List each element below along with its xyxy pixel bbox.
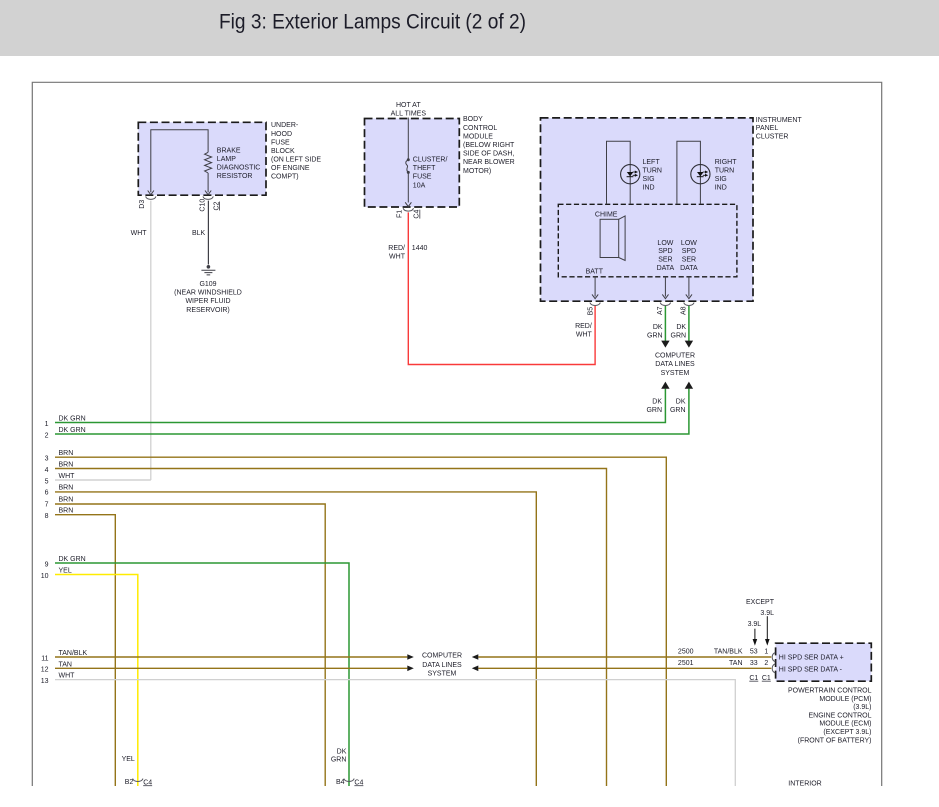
wire label DK GRN bottom	[331, 748, 347, 763]
svg-text:3.9L: 3.9L	[760, 610, 774, 617]
svg-text:MODULE: MODULE	[463, 133, 493, 140]
svg-text:G109: G109	[199, 281, 216, 288]
connector hook C10/C2	[203, 196, 213, 199]
connector label C2	[213, 201, 220, 210]
svg-text:6: 6	[45, 490, 49, 497]
svg-text:SYSTEM: SYSTEM	[661, 370, 690, 377]
chime label	[595, 212, 618, 219]
svg-text:BRN: BRN	[59, 508, 74, 515]
svg-text:YEL: YEL	[59, 568, 72, 575]
svg-text:GRN: GRN	[331, 757, 347, 764]
BCM box	[365, 119, 460, 208]
PCM box	[776, 643, 872, 681]
svg-text:RED/: RED/	[388, 245, 405, 252]
node computer data lines system lower	[422, 653, 462, 678]
svg-text:SPD: SPD	[682, 248, 696, 255]
svg-text:COMPUTER: COMPUTER	[655, 353, 695, 360]
pin label A7	[657, 306, 664, 315]
wire labels DK GRN pair upper	[647, 324, 686, 340]
arrow into pin C10	[205, 191, 211, 195]
PCM label	[788, 688, 872, 745]
pin label A8	[681, 306, 688, 315]
svg-text:CLUSTER/: CLUSTER/	[413, 157, 448, 164]
stub A8	[686, 277, 692, 299]
svg-text:BRAKE: BRAKE	[217, 147, 241, 154]
svg-text:3.9L: 3.9L	[748, 621, 762, 628]
svg-text:DATA LINES: DATA LINES	[422, 662, 462, 669]
connector label C4	[414, 210, 421, 219]
svg-text:C4: C4	[414, 210, 421, 219]
svg-text:SYSTEM: SYSTEM	[428, 670, 457, 677]
left wire name labels	[59, 416, 88, 680]
circuit 2501 labels	[678, 660, 768, 667]
svg-text:HOOD: HOOD	[271, 131, 292, 138]
svg-text:BRN: BRN	[59, 450, 74, 457]
connector hook A7	[660, 303, 670, 306]
svg-text:2501: 2501	[678, 660, 694, 667]
stub BATT to B5	[592, 277, 598, 299]
connector hook D3	[146, 196, 156, 199]
wire label WHT	[131, 230, 148, 237]
instrument panel cluster label	[756, 117, 803, 141]
svg-text:GRN: GRN	[646, 407, 662, 414]
connector hook PCM pin 2	[772, 664, 775, 673]
resistor R brake lamp diagnostic	[205, 152, 212, 173]
fuse label	[413, 157, 448, 190]
svg-text:SPD: SPD	[658, 248, 672, 255]
arrow into pin F1	[405, 202, 411, 206]
svg-text:TURN: TURN	[715, 167, 734, 174]
left turn sig ind lamp U1	[621, 165, 640, 184]
wire 7 BRN	[55, 504, 325, 786]
resistor label	[217, 147, 261, 180]
wire label BLK	[192, 230, 206, 237]
svg-text:3: 3	[45, 455, 49, 462]
svg-text:DATA LINES: DATA LINES	[655, 361, 695, 368]
svg-text:CHIME: CHIME	[595, 212, 618, 219]
wire 6 BRN	[55, 492, 536, 786]
svg-text:DK: DK	[653, 324, 663, 331]
BCM label	[463, 116, 515, 175]
connector label C4 yellow	[143, 779, 152, 786]
wire label RED/WHT at B5	[575, 323, 592, 339]
svg-text:RED/: RED/	[575, 323, 592, 330]
svg-text:(FRONT OF BATTERY): (FRONT OF BATTERY)	[798, 737, 872, 744]
svg-text:LAMP: LAMP	[217, 156, 236, 163]
svg-text:BLOCK: BLOCK	[271, 148, 295, 155]
title bar	[0, 0, 939, 56]
svg-text:COMPT): COMPT)	[271, 174, 299, 181]
right turn label	[715, 159, 738, 192]
node computer data lines system upper	[655, 353, 695, 377]
svg-text:HOT AT: HOT AT	[396, 102, 421, 109]
BATT label	[586, 268, 604, 275]
wire BLK to ground	[207, 201, 209, 265]
wire label YEL bottom	[122, 756, 135, 763]
wire 9 DK GRN	[55, 563, 349, 786]
svg-text:C4: C4	[354, 779, 363, 786]
svg-text:BRN: BRN	[59, 484, 74, 491]
svg-text:INSTRUMENT: INSTRUMENT	[756, 117, 803, 124]
PCM pin texts	[779, 654, 844, 673]
svg-text:10A: 10A	[413, 182, 426, 189]
left turn indicator loop wire	[607, 141, 631, 204]
3.9L label	[748, 621, 762, 628]
svg-text:POWERTRAIN CONTROL: POWERTRAIN CONTROL	[788, 688, 872, 695]
svg-text:GRN: GRN	[670, 407, 686, 414]
svg-text:DK: DK	[676, 324, 686, 331]
svg-text:MODULE (ECM): MODULE (ECM)	[819, 721, 871, 728]
svg-text:11: 11	[41, 655, 48, 662]
wire internal fuse block loop	[151, 130, 208, 193]
svg-text:BODY: BODY	[463, 116, 483, 123]
HOT AT ALL TIMES label	[391, 102, 427, 118]
svg-text:LOW: LOW	[681, 240, 697, 247]
svg-text:IND: IND	[643, 185, 655, 192]
arrow 3.9L to pin 53	[753, 629, 758, 646]
svg-text:4: 4	[45, 467, 49, 474]
svg-text:IND: IND	[715, 185, 727, 192]
svg-text:HI SPD SER DATA -: HI SPD SER DATA -	[779, 666, 843, 673]
svg-text:8: 8	[45, 513, 49, 520]
svg-text:C10: C10	[200, 199, 207, 212]
connector hook A8	[684, 303, 694, 306]
svg-text:DATA: DATA	[657, 265, 675, 272]
svg-text:SIG: SIG	[643, 176, 655, 183]
svg-text:GRN: GRN	[671, 333, 687, 340]
svg-text:B5: B5	[587, 307, 594, 316]
svg-text:RESISTOR: RESISTOR	[217, 173, 253, 180]
instrument panel cluster box	[541, 118, 754, 301]
stub A7	[662, 277, 668, 299]
connector hook B5	[590, 303, 600, 306]
svg-text:CONTROL: CONTROL	[463, 125, 497, 132]
left margin wire numbers	[41, 421, 49, 685]
pin label C10	[200, 199, 207, 212]
feed wire into BCM	[407, 118, 409, 203]
wire 12 TAN left segment	[55, 666, 414, 672]
svg-text:C2: C2	[213, 201, 220, 210]
svg-text:B4: B4	[336, 779, 345, 786]
svg-text:SER: SER	[682, 257, 696, 264]
wire DK GRN from A8	[685, 306, 693, 348]
svg-text:TAN/BLK: TAN/BLK	[714, 649, 743, 656]
svg-text:OF ENGINE: OF ENGINE	[271, 165, 310, 172]
wire 10 YEL	[55, 575, 138, 787]
svg-text:7: 7	[45, 502, 49, 509]
wire label RED/WHT at BCM	[388, 245, 405, 260]
svg-text:C4: C4	[143, 779, 152, 786]
svg-text:DK: DK	[337, 748, 347, 755]
arrow except 3.9L to pin 1	[765, 616, 770, 645]
svg-text:LOW: LOW	[657, 240, 673, 247]
svg-text:WIPER FLUID: WIPER FLUID	[185, 298, 230, 305]
svg-text:(EXCEPT 3.9L): (EXCEPT 3.9L)	[823, 729, 871, 736]
svg-text:WHT: WHT	[59, 473, 76, 480]
svg-text:BATT: BATT	[586, 268, 604, 275]
svg-text:GRN: GRN	[647, 333, 663, 340]
svg-text:YEL: YEL	[122, 756, 135, 763]
underhood fuse block box	[138, 122, 266, 195]
svg-text:EXCEPT: EXCEPT	[746, 599, 775, 606]
svg-text:F1: F1	[397, 210, 404, 218]
svg-text:FUSE: FUSE	[413, 174, 432, 181]
svg-text:DATA: DATA	[680, 265, 698, 272]
svg-text:SIG: SIG	[715, 176, 727, 183]
connector hook B4/C4 green	[344, 779, 354, 782]
svg-text:DK: DK	[652, 398, 662, 405]
svg-text:13: 13	[41, 678, 49, 685]
arrow into pin D3	[148, 191, 154, 195]
svg-text:Fig 3: Exterior Lamps Circuit: Fig 3: Exterior Lamps Circuit (2 of 2)	[219, 11, 526, 34]
svg-text:1440: 1440	[412, 245, 428, 252]
connector hook B2/C4 yellow	[133, 779, 143, 782]
svg-text:WHT: WHT	[389, 253, 406, 260]
svg-text:DK GRN: DK GRN	[59, 416, 86, 423]
svg-text:TURN: TURN	[643, 167, 662, 174]
wire RED/WHT 1440 BCM to IPC B5	[408, 212, 595, 364]
svg-text:NEAR BLOWER: NEAR BLOWER	[463, 159, 515, 166]
wire 12 TAN right segment	[472, 666, 772, 672]
svg-text:TAN/BLK: TAN/BLK	[59, 650, 88, 657]
wire 3 BRN	[55, 457, 666, 786]
svg-text:WHT: WHT	[59, 673, 76, 680]
underhood fuse block label	[271, 122, 321, 180]
svg-text:DK GRN: DK GRN	[59, 427, 86, 434]
svg-text:DK GRN: DK GRN	[59, 556, 86, 563]
wire DK GRN from A7	[661, 306, 669, 348]
svg-text:2: 2	[764, 660, 768, 667]
svg-text:CLUSTER: CLUSTER	[756, 134, 789, 141]
wire 4 BRN	[55, 469, 607, 787]
svg-text:WHT: WHT	[131, 230, 148, 237]
wire 13 WHT	[55, 680, 735, 786]
wire labels DK GRN pair lower	[646, 398, 685, 414]
wire 2 DK GRN	[55, 382, 693, 434]
svg-text:BLK: BLK	[192, 230, 206, 237]
svg-text:PANEL: PANEL	[756, 125, 779, 132]
svg-text:LEFT: LEFT	[643, 159, 661, 166]
diagram frame	[32, 82, 881, 786]
svg-text:COMPUTER: COMPUTER	[422, 653, 462, 660]
svg-text:TAN: TAN	[729, 660, 742, 667]
svg-text:D3: D3	[139, 200, 146, 209]
chime inner box	[558, 204, 737, 276]
wire 5 WHT	[55, 479, 151, 481]
svg-text:MOTOR): MOTOR)	[463, 168, 491, 175]
svg-text:12: 12	[41, 667, 49, 674]
svg-text:BRN: BRN	[59, 496, 74, 503]
left turn label	[643, 159, 662, 192]
fuse Cluster/Theft 10A	[406, 158, 410, 174]
EXCEPT 3.9L label	[746, 599, 775, 617]
svg-text:DIAGNOSTIC: DIAGNOSTIC	[217, 165, 261, 172]
svg-text:THEFT: THEFT	[413, 165, 436, 172]
pin label D3	[139, 200, 146, 209]
svg-text:ENGINE CONTROL: ENGINE CONTROL	[808, 712, 871, 719]
svg-text:(NEAR WINDSHIELD: (NEAR WINDSHIELD	[174, 290, 242, 297]
svg-text:33: 33	[750, 660, 758, 667]
svg-text:BRN: BRN	[59, 462, 74, 469]
connector hook F1/C4	[403, 208, 413, 211]
svg-text:2: 2	[45, 432, 49, 439]
svg-text:INTERIOR: INTERIOR	[788, 781, 821, 788]
svg-text:B2: B2	[125, 779, 134, 786]
connector label C4 green	[354, 779, 363, 786]
svg-text:RESERVOIR): RESERVOIR)	[186, 307, 229, 314]
ground G109	[201, 265, 215, 275]
connector labels C1 C1	[749, 675, 771, 682]
circuit 2500 labels	[678, 649, 768, 656]
pin label B2	[125, 779, 134, 786]
svg-text:C1: C1	[749, 675, 758, 682]
chime speaker symbol	[600, 216, 625, 261]
svg-text:(ON LEFT SIDE: (ON LEFT SIDE	[271, 156, 321, 163]
svg-text:DK: DK	[676, 398, 686, 405]
wire WHT from D3	[55, 201, 151, 480]
svg-text:9: 9	[45, 561, 49, 568]
svg-text:A7: A7	[657, 306, 664, 315]
svg-text:SER: SER	[658, 257, 672, 264]
wire 11 TAN/BLK right segment	[472, 654, 772, 660]
svg-text:2500: 2500	[678, 649, 694, 656]
svg-text:RIGHT: RIGHT	[715, 159, 738, 166]
svg-text:MODULE (PCM): MODULE (PCM)	[819, 696, 871, 703]
circuit number 1440	[412, 245, 428, 252]
connector hook PCM pin 1	[772, 653, 775, 662]
pin label B4	[336, 779, 345, 786]
svg-text:ALL TIMES: ALL TIMES	[391, 111, 427, 118]
low spd ser data labels	[657, 240, 698, 272]
INTERIOR label	[788, 781, 821, 788]
svg-text:1: 1	[45, 421, 49, 428]
svg-text:10: 10	[41, 573, 49, 580]
svg-text:SIDE OF DASH,: SIDE OF DASH,	[463, 151, 514, 158]
pin label B5	[587, 307, 594, 316]
svg-text:(3.9L): (3.9L)	[853, 704, 871, 711]
wire 1 DK GRN	[55, 382, 670, 423]
right turn indicator loop wire	[677, 141, 701, 204]
svg-text:5: 5	[45, 478, 49, 485]
svg-text:HI SPD SER DATA +: HI SPD SER DATA +	[779, 654, 844, 661]
pin label F1	[397, 210, 404, 218]
svg-text:A8: A8	[681, 306, 688, 315]
wire 11 TAN/BLK left segment	[55, 654, 414, 660]
svg-text:TAN: TAN	[59, 661, 72, 668]
right turn sig ind lamp U2	[691, 165, 710, 184]
svg-text:1: 1	[764, 649, 768, 656]
svg-text:WHT: WHT	[576, 331, 593, 338]
wire 8 BRN	[55, 515, 115, 786]
svg-text:UNDER-: UNDER-	[271, 122, 299, 129]
svg-text:53: 53	[750, 649, 758, 656]
svg-text:FUSE: FUSE	[271, 139, 290, 146]
ground label	[174, 281, 242, 314]
svg-text:C1: C1	[762, 675, 771, 682]
svg-text:(BELOW RIGHT: (BELOW RIGHT	[463, 142, 515, 149]
